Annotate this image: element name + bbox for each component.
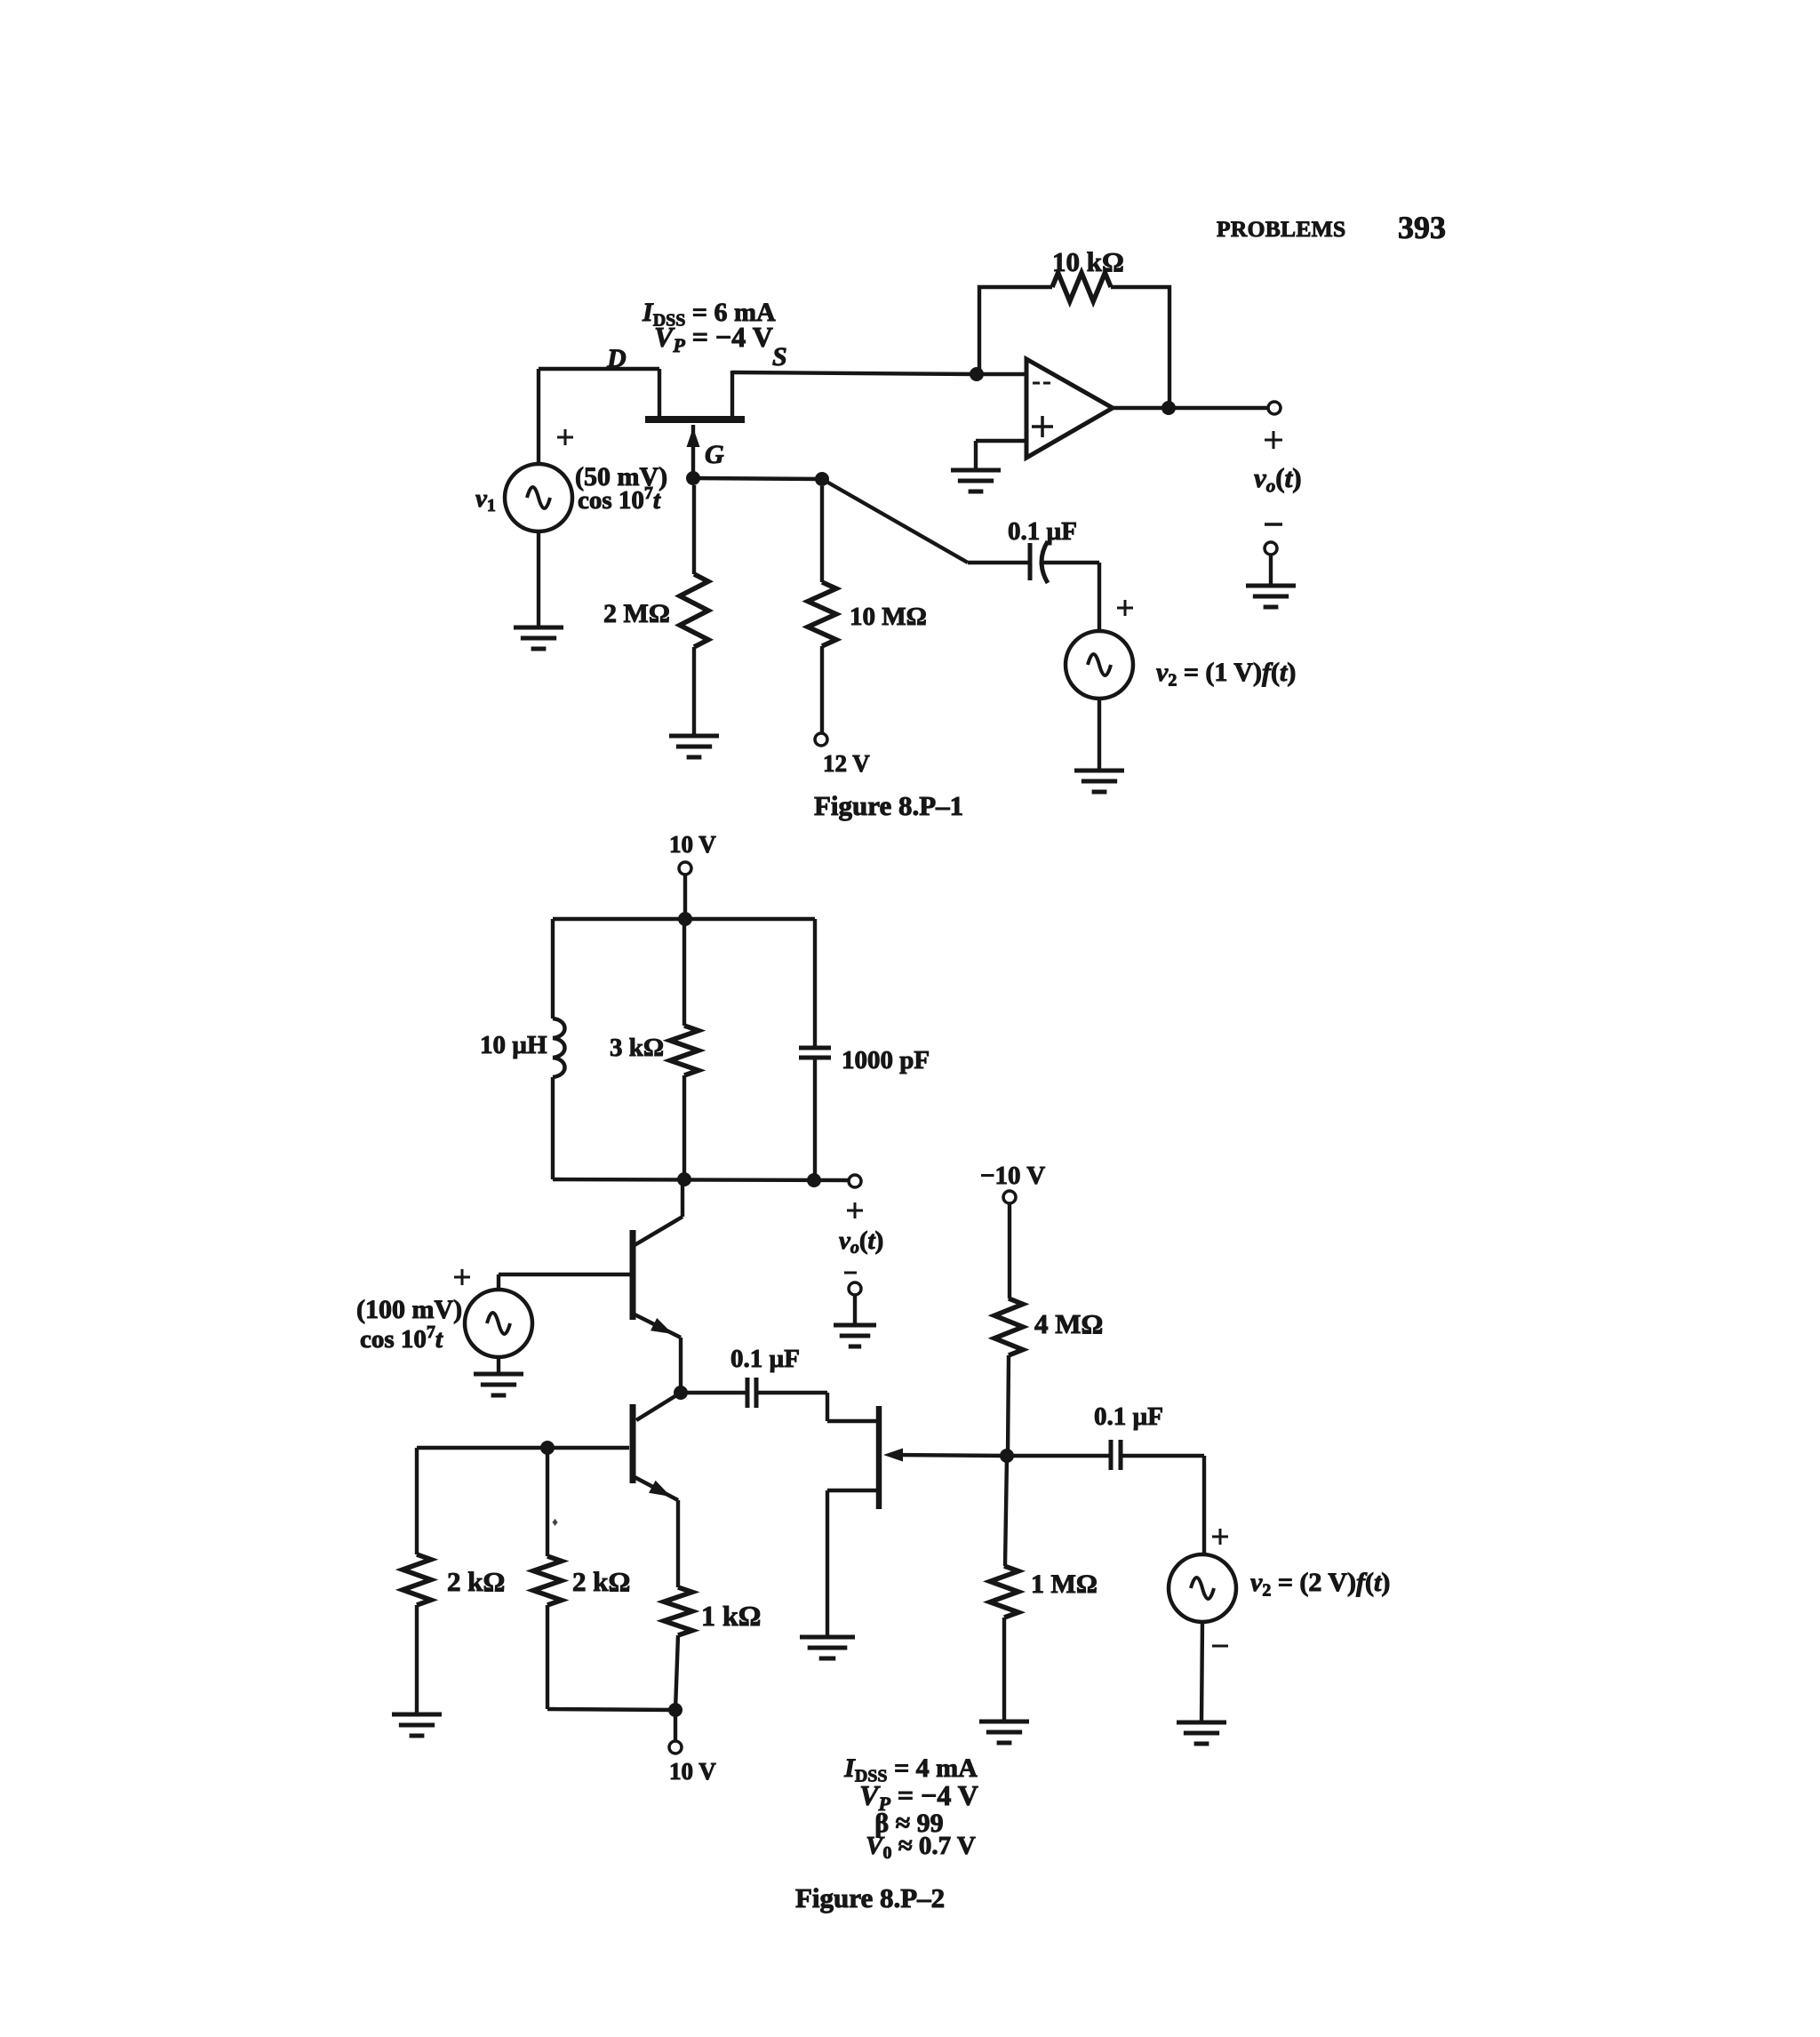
svg-text:10 kΩ: 10 kΩ [1052, 246, 1124, 277]
svg-text:10 MΩ: 10 MΩ [850, 603, 927, 631]
svg-text:PROBLEMS: PROBLEMS [1217, 216, 1346, 242]
svg-text:2 kΩ: 2 kΩ [447, 1566, 505, 1597]
svg-text:3 kΩ: 3 kΩ [610, 1034, 664, 1062]
svg-text:vo(t): vo(t) [839, 1226, 883, 1258]
svg-text:V0 ≈ 0.7 V: V0 ≈ 0.7 V [866, 1832, 976, 1863]
svg-text:vo(t): vo(t) [1254, 462, 1302, 497]
svg-text:1000 pF: 1000 pF [842, 1046, 930, 1074]
svg-text:Figure 8.P–2: Figure 8.P–2 [795, 1882, 945, 1913]
svg-text:393: 393 [1398, 210, 1446, 245]
svg-text:10 µH: 10 µH [480, 1031, 547, 1059]
svg-text:VP = −4 V: VP = −4 V [654, 321, 773, 356]
svg-text:1 MΩ: 1 MΩ [1031, 1570, 1098, 1599]
svg-text:v2 = (2 V)f(t): v2 = (2 V)f(t) [1250, 1568, 1390, 1600]
svg-text:10 V: 10 V [669, 831, 716, 858]
svg-text:Figure 8.P–1: Figure 8.P–1 [814, 790, 963, 821]
svg-text:G: G [705, 440, 724, 469]
svg-text:(100 mV): (100 mV) [356, 1295, 462, 1324]
svg-text:0.1 µF: 0.1 µF [1008, 517, 1077, 546]
svg-text:−10 V: −10 V [980, 1162, 1045, 1190]
svg-text:cos 107t: cos 107t [360, 1322, 443, 1354]
svg-text:cos 107t: cos 107t [578, 483, 661, 515]
svg-text:0.1 µF: 0.1 µF [730, 1345, 800, 1373]
svg-text:0.1 µF: 0.1 µF [1094, 1402, 1163, 1431]
svg-text:10 V: 10 V [669, 1758, 716, 1785]
svg-text:2 kΩ: 2 kΩ [572, 1566, 630, 1597]
svg-text:4 MΩ: 4 MΩ [1034, 1308, 1103, 1339]
svg-text:12 V: 12 V [823, 750, 870, 777]
svg-text:v1: v1 [475, 484, 496, 515]
svg-text:2 MΩ: 2 MΩ [603, 599, 670, 628]
svg-text:1 kΩ: 1 kΩ [701, 1600, 761, 1632]
svg-text:S: S [772, 342, 787, 371]
svg-text:♦: ♦ [552, 1516, 558, 1530]
svg-text:v2 = (1 V)f(t): v2 = (1 V)f(t) [1156, 658, 1296, 690]
